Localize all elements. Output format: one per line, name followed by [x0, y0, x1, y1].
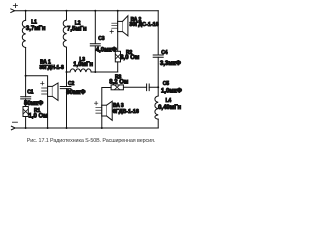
svg-text:7,5мГн: 7,5мГн: [67, 26, 87, 32]
wire R2 to mid wire: [117, 62, 119, 72]
node L3 tap junction: [66, 71, 68, 73]
wire R3 left to BA3 column: [102, 88, 111, 106]
wire BA2 to R2: [117, 32, 119, 52]
node BA1 tap junction: [25, 75, 27, 77]
resistor R3: [109, 75, 129, 90]
svg-text:35ГДН-1-8: 35ГДН-1-8: [39, 65, 64, 71]
node bottom rail / R1 junction: [25, 127, 27, 129]
inductor L4: [155, 96, 182, 119]
svg-text:6ГДВ-1-16: 6ГДВ-1-16: [113, 109, 139, 115]
wire mid horizontal L3 to R2 column: [91, 71, 118, 73]
wire col3 lower: [94, 46, 96, 72]
minus terminal mark: [12, 121, 17, 123]
loudspeaker BA2 30GDS-1-16: [110, 16, 159, 36]
svg-text:3,0 Ом: 3,0 Ом: [120, 55, 140, 61]
wire col1 lower: [25, 99, 27, 128]
wire col2 lower: [66, 89, 68, 128]
node bottom rail / C2 junction: [66, 127, 68, 129]
svg-text:1,0мГн: 1,0мГн: [73, 62, 93, 68]
wire top rail: [15, 10, 159, 12]
wire L3 left lead: [67, 71, 71, 73]
wire BA1 to bottom rail: [47, 96, 49, 128]
svg-text:Рис. 17.1 Радиотехника S-50B.: Рис. 17.1 Радиотехника S-50B. Расширенна…: [27, 138, 156, 144]
output terminal chevron bottom: [11, 126, 15, 130]
inductor L1: [22, 19, 46, 47]
wire col5 upper: [157, 11, 159, 55]
capacitor C4: [153, 50, 181, 67]
wire BA3 to bottom rail: [101, 116, 103, 128]
plus terminal mark: [13, 4, 17, 8]
svg-text:8,2 Ом: 8,2 Ом: [109, 80, 129, 86]
capacitor C2: [60, 81, 85, 96]
wire col5 mid: [157, 57, 159, 96]
svg-text:30мкФ: 30мкФ: [66, 90, 85, 96]
svg-text:C4: C4: [161, 50, 167, 56]
wire BA1 tap: [26, 76, 48, 87]
input terminal chevron top: [11, 9, 15, 13]
svg-text:30ГДС-1-16: 30ГДС-1-16: [129, 22, 158, 28]
wire col2 upper: [66, 11, 68, 20]
svg-text:C5: C5: [163, 81, 169, 87]
node bottom rail / BA1 junction: [47, 127, 49, 129]
svg-text:C3: C3: [98, 36, 104, 42]
capacitor C1: [21, 90, 44, 107]
node mid wire / C3 column junction: [94, 71, 96, 73]
wire bottom rail: [15, 127, 158, 129]
capacitor C5: [123, 81, 182, 95]
resistor R1: [23, 107, 48, 120]
wire col4 upper: [117, 11, 119, 22]
svg-text:4,0мкФ: 4,0мкФ: [96, 47, 117, 53]
svg-text:0,49мГн: 0,49мГн: [158, 105, 181, 111]
node C5 junction: [157, 86, 159, 88]
resistor R2: [115, 50, 140, 62]
capacitor C3: [90, 36, 116, 53]
node bottom rail / BA3 junction: [101, 127, 103, 129]
svg-text:3,7мГн: 3,7мГн: [26, 26, 46, 32]
svg-text:L1: L1: [31, 19, 37, 25]
svg-text:50мкФ: 50мкФ: [24, 101, 43, 107]
svg-text:C1: C1: [27, 90, 33, 96]
wire col2 mid: [66, 47, 68, 86]
svg-text:3,3мкФ: 3,3мкФ: [160, 61, 181, 67]
inductor L2: [63, 20, 87, 47]
svg-text:1,0 Ом: 1,0 Ом: [29, 113, 49, 119]
svg-text:L4: L4: [166, 98, 172, 104]
node top rail / L2 junction: [66, 10, 68, 12]
wire col3 upper: [94, 11, 96, 44]
node top rail / BA2 junction: [117, 10, 119, 12]
wire col5 lower: [157, 119, 159, 128]
node top rail / C3 junction: [94, 10, 96, 12]
svg-text:C2: C2: [68, 81, 74, 87]
svg-text:1,0мкФ: 1,0мкФ: [161, 89, 182, 95]
loudspeaker BA3 6GDV-1-16: [94, 101, 139, 120]
wire col1 upper: [25, 11, 27, 21]
inductor L3: [70, 57, 93, 72]
node top rail / L1 junction: [25, 10, 27, 12]
loudspeaker BA1 35GDN-1-8: [39, 59, 64, 100]
wire col1 mid: [25, 48, 27, 97]
